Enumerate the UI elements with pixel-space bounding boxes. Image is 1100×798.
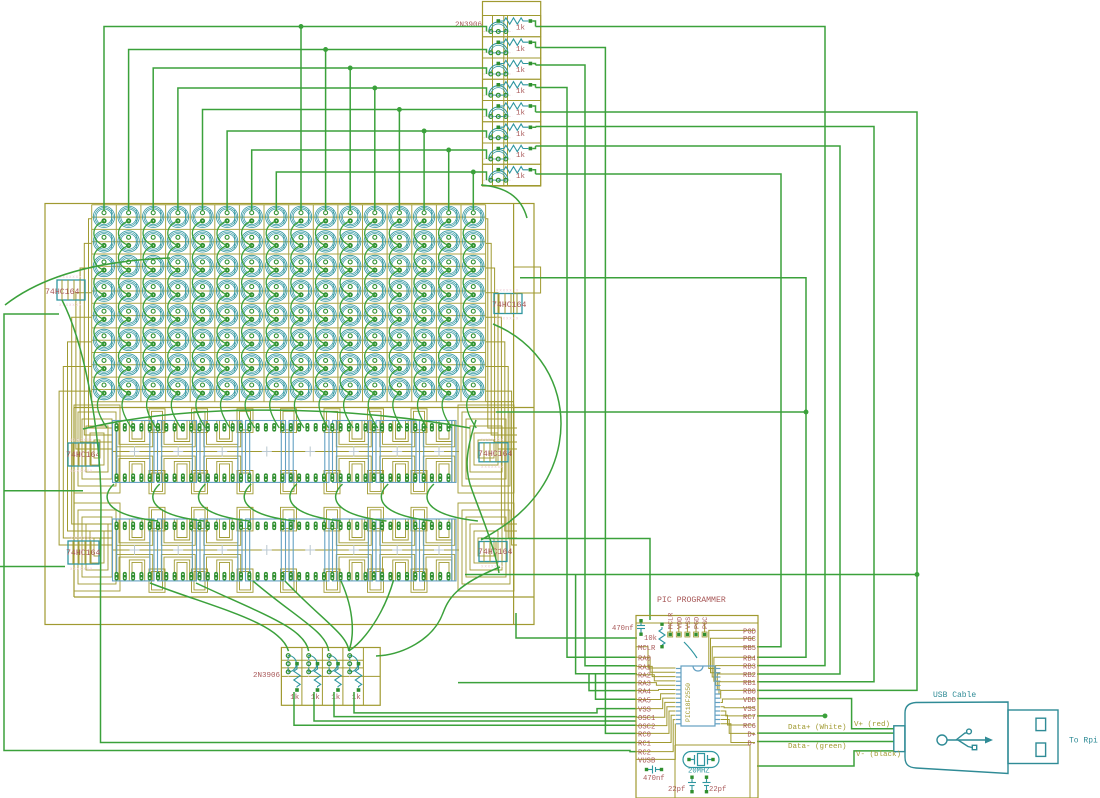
wire band2 left entry — [0, 566, 65, 568]
ICSP header pads — [668, 613, 710, 637]
LED D113 — [93, 378, 114, 399]
capacitor C4 470nf — [648, 766, 660, 774]
LED D122 — [315, 378, 336, 399]
svg-text:VDD: VDD — [676, 617, 684, 629]
svg-text:10k: 10k — [644, 635, 657, 643]
left bus traces — [59, 219, 112, 545]
LED D107 — [340, 354, 361, 375]
LED D18 — [118, 231, 139, 252]
LED D45 — [389, 255, 410, 276]
resistor R8 1k — [497, 167, 533, 182]
LED D50 — [118, 280, 139, 301]
LED D126 — [413, 378, 434, 399]
wire RA2 feed — [576, 575, 637, 674]
LED D95 — [438, 329, 459, 350]
stub box right of matrix — [514, 267, 541, 293]
curve left long sweep — [62, 300, 101, 589]
svg-text:1k: 1k — [516, 110, 526, 118]
wire Q10 output — [314, 692, 636, 721]
transistor Q1 2N3906 — [483, 16, 541, 37]
LED D64 — [463, 280, 484, 301]
svg-text:1k: 1k — [352, 694, 362, 702]
transistor Q11 2N3906 — [327, 650, 340, 677]
LED D36 — [167, 255, 188, 276]
svg-text:OSC2: OSC2 — [638, 724, 655, 732]
wire Q1 base to RB3 — [536, 27, 826, 666]
svg-text:PGC: PGC — [702, 617, 710, 629]
curve band gap 2 — [153, 484, 204, 521]
LED D4 — [167, 206, 188, 227]
svg-text:22pf: 22pf — [709, 786, 726, 794]
svg-text:V- (black): V- (black) — [856, 751, 901, 759]
LED D102 — [216, 354, 237, 375]
LED D70 — [216, 305, 237, 326]
LED D108 — [364, 354, 385, 375]
LED D59 — [340, 280, 361, 301]
band 1 IC bodies (blue) — [113, 421, 457, 483]
LED D22 — [216, 231, 237, 252]
svg-text:74HC164: 74HC164 — [66, 451, 100, 460]
LED D38 — [216, 255, 237, 276]
svg-text:RB4: RB4 — [743, 655, 756, 663]
LED D85 — [192, 329, 213, 350]
LED D84 — [167, 329, 188, 350]
LED D76 — [364, 305, 385, 326]
LED D60 — [364, 280, 385, 301]
band 1 origin marks — [130, 447, 445, 457]
LED D89 — [290, 329, 311, 350]
LED D112 — [463, 354, 484, 375]
resistor R5 1k — [497, 103, 533, 118]
LED D34 — [118, 255, 139, 276]
svg-text:74HC164: 74HC164 — [66, 549, 100, 558]
LED D67 — [143, 305, 164, 326]
LED D80 — [463, 305, 484, 326]
svg-text:RB3: RB3 — [743, 664, 756, 672]
svg-text:1k: 1k — [516, 67, 526, 75]
wire RA4 feed — [589, 674, 637, 691]
svg-text:RA4: RA4 — [638, 688, 651, 696]
wire Q4 output jog — [532, 85, 535, 88]
right bus traces — [486, 219, 517, 545]
svg-text:VSS: VSS — [743, 706, 756, 714]
svg-text:2N3906: 2N3906 — [455, 22, 483, 30]
svg-text:Data+ (White): Data+ (White) — [788, 724, 847, 732]
LED D86 — [216, 329, 237, 350]
svg-text:74HC164: 74HC164 — [478, 450, 512, 459]
curve right S — [467, 420, 499, 573]
LED D42 — [315, 255, 336, 276]
LED D19 — [143, 231, 164, 252]
LED D2 — [118, 206, 139, 227]
LED D54 — [216, 280, 237, 301]
band 2 top pin pads — [115, 522, 451, 531]
LED D30 — [413, 231, 434, 252]
svg-text:20MHZ: 20MHZ — [688, 768, 710, 776]
LED D23 — [241, 231, 262, 252]
LED D72 — [266, 305, 287, 326]
LED D9 — [290, 206, 311, 227]
wire row7 column feed — [252, 148, 487, 210]
left maze spiral band1 — [74, 405, 120, 493]
svg-text:1k: 1k — [516, 46, 526, 54]
LED D6 — [216, 206, 237, 227]
wire RB4 feed — [496, 278, 808, 658]
LED D99 — [143, 354, 164, 375]
resistor R3 1k — [497, 60, 533, 75]
LED D127 — [438, 378, 459, 399]
LED D114 — [118, 378, 139, 399]
resistor R4 1k — [497, 82, 533, 97]
capacitor C2 22pf — [688, 779, 696, 791]
transistor Q2 2N3906 — [483, 37, 541, 58]
LED D15 — [438, 206, 459, 227]
svg-text:xxxxxxx: xxxxxxx — [70, 470, 93, 474]
PIC internal traces — [636, 630, 755, 798]
LED D116 — [167, 378, 188, 399]
LED D49 — [93, 280, 114, 301]
LED D8 — [266, 206, 287, 227]
curve strip feed B7 — [376, 567, 500, 656]
LED D37 — [192, 255, 213, 276]
LED D25 — [290, 231, 311, 252]
svg-text:PIC PROGRAMMER: PIC PROGRAMMER — [657, 596, 726, 605]
LED D57 — [290, 280, 311, 301]
resistor R10 1k — [311, 666, 321, 703]
curve strip feed B5 — [341, 581, 352, 651]
curve band gap 4 — [244, 484, 295, 521]
IC U1 (matrix left) 74HC164 — [45, 276, 85, 308]
right maze spiral band2 — [458, 503, 514, 591]
curve matrix-left arc — [5, 258, 170, 305]
svg-text:VSS: VSS — [638, 707, 651, 715]
svg-text:xxxxxxx: xxxxxxx — [481, 466, 504, 470]
IC U7 PIC18F2550 DIP socket — [676, 666, 720, 726]
svg-text:74HC164: 74HC164 — [45, 288, 79, 297]
band 2 IC bodies (blue) — [113, 519, 457, 581]
wire Q6 output jog — [532, 126, 535, 129]
resistor R13 10k — [659, 627, 665, 645]
curve strip feed B1 — [150, 583, 289, 651]
LED D125 — [389, 378, 410, 399]
LED D16 — [463, 206, 484, 227]
wire Q2 base to RC0 — [536, 48, 638, 734]
capacitor C3 22pf — [703, 779, 711, 791]
LED D74 — [315, 305, 336, 326]
band 2 origin marks — [130, 545, 445, 555]
wire Q8 base to RB5 — [536, 174, 782, 647]
band 1 top pin pads — [115, 423, 451, 432]
svg-text:xxxxxxx: xxxxxxx — [70, 537, 93, 541]
resistor R12 1k — [352, 666, 362, 703]
USB trident icon — [937, 729, 985, 750]
LED D66 — [118, 305, 139, 326]
LED D65 — [93, 305, 114, 326]
band 1 bottom pin pads — [115, 473, 451, 482]
band 2 bottom pin pads — [115, 572, 451, 581]
PIC left pin labels — [638, 645, 656, 766]
svg-text:RB0: RB0 — [743, 688, 756, 696]
LED D52 — [167, 280, 188, 301]
PIC programmer board outline — [636, 616, 758, 798]
LED D11 — [340, 206, 361, 227]
svg-text:1k: 1k — [516, 88, 526, 96]
LED D120 — [266, 378, 287, 399]
transistor Q5 2N3906 — [483, 101, 541, 122]
svg-text:1k: 1k — [516, 25, 526, 33]
LED D3 — [143, 206, 164, 227]
wire ICSP feed — [481, 539, 650, 621]
wire far-left loop — [4, 314, 637, 752]
wire Q7 output jog — [532, 146, 535, 149]
curve strip feed B2 — [196, 583, 309, 651]
wire net row5 junction — [465, 573, 919, 576]
svg-text:RB2: RB2 — [743, 672, 756, 680]
wire V+ red — [757, 699, 894, 729]
wire row4 column feed — [178, 86, 487, 210]
LED D47 — [438, 255, 459, 276]
LED D21 — [192, 231, 213, 252]
LED D39 — [241, 255, 262, 276]
LED D13 — [389, 206, 410, 227]
LED D103 — [241, 354, 262, 375]
LED D121 — [290, 378, 311, 399]
LED D31 — [438, 231, 459, 252]
LED D81 — [93, 329, 114, 350]
wire left column feed — [101, 589, 638, 743]
svg-text:PIC18F2550: PIC18F2550 — [685, 683, 692, 722]
svg-text:RA3: RA3 — [638, 681, 651, 689]
LED D5 — [192, 206, 213, 227]
LED D69 — [192, 305, 213, 326]
LED D105 — [290, 354, 311, 375]
svg-text:xxxxxxx: xxxxxxx — [59, 304, 82, 308]
svg-text:xxxxxxx: xxxxxxx — [70, 568, 93, 572]
LED D61 — [389, 280, 410, 301]
LED D28 — [364, 231, 385, 252]
LED D33 — [93, 255, 114, 276]
LED D43 — [340, 255, 361, 276]
svg-text:RB5: RB5 — [743, 645, 756, 653]
transistor Q6 2N3906 — [483, 122, 541, 143]
curve band gap 8 — [427, 484, 478, 521]
wire row2 column feed — [129, 48, 487, 211]
LED D100 — [167, 354, 188, 375]
wire band1 left entry — [4, 490, 83, 492]
wire Data+ white — [757, 732, 894, 734]
transistor Q7 2N3906 — [483, 143, 541, 164]
LED column ratsnest curves — [94, 221, 476, 428]
svg-text:RA5: RA5 — [638, 698, 651, 706]
svg-text:PGD: PGD — [694, 617, 702, 629]
svg-text:470nf: 470nf — [643, 775, 665, 783]
svg-text:MCLR: MCLR — [668, 613, 676, 629]
svg-text:MCLR: MCLR — [638, 645, 656, 653]
LED D119 — [241, 378, 262, 399]
band 1 trace maze — [112, 409, 459, 494]
wire Q7 base to RB2 — [536, 146, 841, 674]
PIC right pin labels — [743, 628, 757, 748]
svg-text:PGD: PGD — [743, 628, 756, 636]
LED D40 — [266, 255, 287, 276]
resistor R11 1k — [331, 666, 341, 703]
LED D82 — [118, 329, 139, 350]
LED D94 — [413, 329, 434, 350]
LED D1 — [93, 206, 114, 227]
transistor Q10 2N3906 — [307, 650, 320, 677]
LED D88 — [266, 329, 287, 350]
USB cable plug — [894, 702, 1058, 774]
transistor Q9 2N3906 — [286, 650, 299, 677]
LED D7 — [241, 206, 262, 227]
curve strip feed B4 — [285, 581, 349, 651]
wire Q3 base to RA1 — [536, 65, 638, 666]
LED D97 — [93, 354, 114, 375]
resistor R6 1k — [497, 124, 533, 139]
wire Q5 output jog — [532, 106, 535, 112]
IC U2 (matrix right) 74HC164 — [492, 290, 526, 322]
LED D63 — [438, 280, 459, 301]
resistor R2 1k — [497, 39, 533, 54]
LED D123 — [340, 378, 361, 399]
wire PGC feed — [516, 613, 637, 638]
wire row3 column feed — [153, 66, 486, 210]
resistor R9 1k — [290, 666, 300, 703]
svg-text:OSC1: OSC1 — [638, 715, 655, 723]
LED D90 — [315, 329, 336, 350]
svg-text:D-: D- — [747, 741, 756, 749]
LED D92 — [364, 329, 385, 350]
wire arc (jumper) — [684, 642, 697, 658]
IC U6 (band2 right) 74HC164 — [478, 538, 512, 570]
top driver strip outline — [483, 2, 541, 187]
LED D115 — [143, 378, 164, 399]
curve strip bottom hook — [481, 185, 527, 218]
LED D78 — [413, 305, 434, 326]
transistor Q4 2N3906 — [483, 79, 541, 100]
svg-text:RA1: RA1 — [638, 664, 651, 672]
svg-text:xxxxxxx: xxxxxxx — [481, 566, 504, 570]
transistor Q12 2N3906 — [348, 650, 361, 677]
LED D106 — [315, 354, 336, 375]
svg-text:RA0: RA0 — [638, 655, 651, 663]
svg-text:VSS: VSS — [685, 617, 693, 629]
wire row6 column feed — [227, 129, 486, 210]
curve band gap 7 — [381, 484, 432, 521]
svg-text:To Rpi: To Rpi — [1069, 737, 1098, 746]
LED D56 — [266, 280, 287, 301]
svg-text:xxxxxxx: xxxxxxx — [481, 439, 504, 443]
LED D98 — [118, 354, 139, 375]
board outline frame — [45, 204, 534, 625]
LED D58 — [315, 280, 336, 301]
wire Q11 output — [334, 692, 637, 717]
svg-text:PGC: PGC — [743, 636, 757, 644]
LED D128 — [463, 378, 484, 399]
svg-text:2N3906: 2N3906 — [253, 672, 281, 680]
svg-text:VUSB: VUSB — [638, 757, 656, 765]
LED D96 — [463, 329, 484, 350]
LED D20 — [167, 231, 188, 252]
IC U5 (band1 right) 74HC164 — [478, 439, 512, 470]
IC U4 (band2 left) 74HC164 — [66, 537, 100, 572]
wire V- black — [757, 751, 894, 766]
wire RC7 stub — [757, 714, 827, 717]
capacitor C1 470nf — [637, 622, 645, 633]
left maze spiral band2 — [74, 503, 120, 591]
LED D24 — [266, 231, 287, 252]
wire row8 column feed — [276, 170, 486, 210]
svg-text:RC2: RC2 — [638, 750, 651, 758]
wire RA3 feed — [458, 682, 637, 684]
wire Q3 output jog — [532, 64, 535, 66]
LED D10 — [315, 206, 336, 227]
svg-text:RC0: RC0 — [638, 731, 651, 739]
LED D91 — [340, 329, 361, 350]
svg-text:1k: 1k — [516, 173, 526, 181]
transistor Q8 2N3906 — [483, 164, 541, 185]
wire row5 column feed — [203, 108, 487, 211]
wire Q6 base to RB1 — [536, 127, 875, 682]
LED D12 — [364, 206, 385, 227]
svg-text:xxxxxxx: xxxxxxx — [59, 276, 82, 280]
LED D46 — [413, 255, 434, 276]
resistor R7 1k — [497, 145, 533, 160]
LED D35 — [143, 255, 164, 276]
LED D111 — [438, 354, 459, 375]
wire Q12 output — [354, 692, 637, 713]
LED D101 — [192, 354, 213, 375]
svg-text:V+ (red): V+ (red) — [854, 721, 890, 729]
svg-text:22pf: 22pf — [668, 786, 685, 794]
LED D51 — [143, 280, 164, 301]
LED D62 — [413, 280, 434, 301]
bottom driver strip outline — [281, 648, 380, 706]
svg-text:USB Cable: USB Cable — [933, 691, 976, 700]
LED D73 — [290, 305, 311, 326]
curve band gap 3 — [199, 484, 250, 521]
LED matrix cell grid — [92, 205, 486, 402]
curve strip feed B3 — [253, 581, 329, 651]
curve band gap 6 — [336, 484, 387, 521]
curve band1 arch — [83, 410, 470, 429]
svg-text:VDD: VDD — [743, 697, 756, 705]
wire row1 column feed — [104, 25, 487, 211]
wire Q2 output jog — [532, 42, 535, 47]
LED D27 — [340, 231, 361, 252]
svg-text:1k: 1k — [311, 694, 321, 702]
top strip inner columns — [493, 16, 508, 187]
wire Q1 output jog — [532, 21, 535, 27]
wire RA5 feed — [596, 674, 638, 700]
svg-text:1k: 1k — [516, 131, 526, 139]
curve right big arc — [481, 324, 561, 540]
LED D26 — [315, 231, 336, 252]
LED D14 — [413, 206, 434, 227]
band 2 trace maze — [112, 507, 459, 592]
svg-text:D+: D+ — [747, 731, 756, 739]
svg-text:470nf: 470nf — [612, 625, 634, 633]
LED D71 — [241, 305, 262, 326]
wire Q4 base to RA0 — [536, 88, 638, 658]
LED D32 — [463, 231, 484, 252]
svg-text:RB1: RB1 — [743, 680, 756, 688]
LED D93 — [389, 329, 410, 350]
svg-text:RC1: RC1 — [638, 741, 651, 749]
svg-text:xxxxxxx: xxxxxxx — [70, 439, 93, 443]
LED D118 — [216, 378, 237, 399]
LED D55 — [241, 280, 262, 301]
